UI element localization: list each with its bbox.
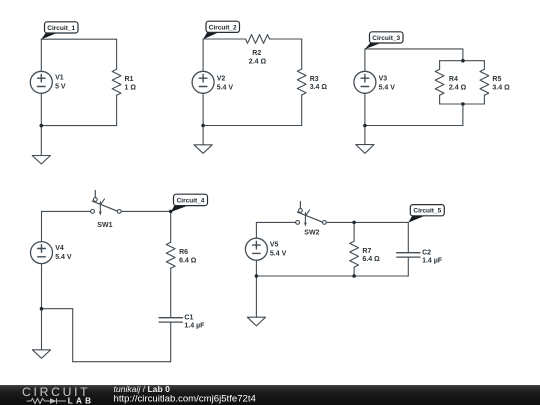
wire circuit5 bottom rail	[256, 275, 408, 277]
voltage source V4	[31, 242, 53, 264]
node circuit5 R7 bottom junction	[352, 274, 356, 278]
wire circuit2 left rail top	[202, 39, 204, 71]
wire R5 top lead	[483, 61, 485, 70]
ground circuit3	[356, 126, 374, 154]
wire circuit4 right rail bottom	[170, 322, 172, 362]
label C1 value	[184, 315, 205, 330]
wire C2 bottom lead	[407, 257, 409, 276]
svg-text:V4: V4	[55, 245, 64, 252]
wire circuit5 left rail top	[255, 222, 257, 238]
label R6 value	[179, 249, 197, 264]
svg-text:tunikaij / Lab 0: tunikaij / Lab 0	[114, 384, 171, 394]
svg-text:3.4 Ω: 3.4 Ω	[492, 84, 510, 91]
wire circuit4 top rail left	[42, 210, 91, 212]
voltage source V3	[354, 71, 376, 93]
switch SW2	[296, 202, 327, 227]
resistor R5	[480, 69, 489, 95]
label V4 value	[55, 245, 72, 261]
wire circuit1 bottom rail	[41, 125, 116, 127]
svg-text:R1: R1	[125, 76, 134, 83]
node circuit3 parallel top junction	[461, 59, 465, 63]
svg-text:5 V: 5 V	[55, 84, 66, 91]
wire R7 bottom lead	[353, 267, 355, 276]
svg-text:1.4 µF: 1.4 µF	[422, 258, 443, 265]
svg-text:R2: R2	[252, 50, 261, 57]
ground circuit4	[32, 309, 50, 359]
svg-text:6.4 Ω: 6.4 Ω	[179, 257, 197, 264]
resistor R7	[350, 241, 359, 267]
resistor R3	[297, 69, 306, 95]
svg-text:2.4 Ω: 2.4 Ω	[449, 84, 467, 91]
label tag Circuit_3	[365, 32, 403, 49]
svg-text:Circuit_3: Circuit_3	[372, 35, 400, 42]
label R7 value	[362, 248, 380, 263]
wire circuit2 bottom rail	[203, 125, 302, 127]
voltage source V2	[192, 71, 214, 93]
capacitor C2	[397, 253, 420, 257]
wire circuit3 bottom stem	[462, 104, 464, 126]
wire circuit4 right rail top	[170, 211, 172, 242]
label V5 value	[270, 242, 287, 258]
svg-text:SW2: SW2	[304, 230, 319, 237]
svg-text:R7: R7	[362, 248, 371, 255]
wire circuit1 right rail bottom	[116, 95, 118, 125]
wire circuit3 top rail	[365, 49, 463, 61]
node circuit2 bottom junction	[201, 124, 205, 128]
wire circuit1 top rail	[41, 38, 116, 40]
label tag Circuit_5	[408, 205, 444, 223]
svg-text:Circuit_5: Circuit_5	[413, 208, 441, 215]
wire circuit2 left rail bottom	[202, 93, 204, 125]
footer bar	[0, 385, 540, 405]
wire circuit1 left rail top	[40, 39, 42, 71]
node circuit5 left bottom junction	[255, 274, 259, 278]
svg-text:6.4 Ω: 6.4 Ω	[362, 256, 380, 263]
svg-text:V2: V2	[217, 76, 226, 83]
wire circuit1 right rail top	[116, 39, 118, 69]
wire circuit1 left rail bottom	[40, 93, 42, 125]
voltage source V5	[245, 238, 267, 260]
wire circuit3 parallel top bar	[440, 60, 485, 62]
svg-text:5.4 V: 5.4 V	[270, 251, 287, 258]
svg-text:SW1: SW1	[97, 222, 112, 229]
node circuit4 top right junction	[169, 210, 173, 214]
svg-text:C2: C2	[422, 250, 431, 257]
svg-text:R5: R5	[492, 76, 501, 83]
ground circuit5	[247, 276, 265, 326]
node circuit3 parallel bottom junction	[461, 102, 465, 106]
wire circuit4 left riser	[72, 309, 74, 362]
svg-text:5.4 V: 5.4 V	[379, 85, 396, 92]
svg-text:V5: V5	[270, 242, 279, 249]
label V1 value	[55, 75, 66, 91]
svg-text:V1: V1	[55, 75, 64, 82]
svg-text:C1: C1	[184, 315, 193, 322]
wire R7 top lead	[353, 222, 355, 241]
wire circuit2 top rail left	[203, 38, 245, 40]
svg-text:Circuit_2: Circuit_2	[209, 24, 237, 31]
label R4 value	[449, 76, 467, 91]
resistor R1	[112, 69, 121, 95]
wire circuit4 left rail top	[41, 211, 43, 241]
wire circuit3 left rail bottom	[364, 93, 366, 125]
label R2 value	[249, 50, 267, 65]
svg-text:5.4 V: 5.4 V	[55, 254, 72, 261]
svg-text:2.4 Ω: 2.4 Ω	[249, 58, 267, 65]
svg-text:http://circuitlab.com/cmj6j5tf: http://circuitlab.com/cmj6j5tfe72t4	[114, 394, 257, 405]
svg-text:LAB: LAB	[68, 396, 94, 405]
svg-text:Circuit_4: Circuit_4	[177, 197, 205, 204]
svg-text:R4: R4	[449, 76, 458, 83]
svg-text:V3: V3	[379, 76, 388, 83]
label R5 value	[492, 76, 510, 91]
wire circuit5 top rail right	[326, 221, 408, 223]
wire circuit5 left rail bottom	[255, 260, 257, 276]
svg-text:3.4 Ω: 3.4 Ω	[310, 84, 328, 91]
label tag Circuit_2	[203, 21, 239, 39]
svg-text:R6: R6	[179, 249, 188, 256]
wire circuit4 bottom rail	[73, 361, 171, 363]
capacitor C1	[159, 318, 182, 322]
label R1 value	[125, 76, 137, 91]
svg-text:1.4 µF: 1.4 µF	[184, 323, 205, 330]
wire R4 bottom lead	[439, 95, 441, 104]
wire circuit2 right rail top	[301, 39, 303, 69]
resistor R4	[435, 69, 444, 95]
resistor R2	[246, 35, 270, 44]
node circuit4 left junction	[40, 307, 44, 311]
svg-text:1 Ω: 1 Ω	[125, 84, 137, 91]
label C2 value	[422, 250, 443, 265]
wire circuit4 top rail right	[121, 210, 171, 212]
label tag Circuit_4	[171, 194, 208, 212]
voltage source V1	[30, 71, 52, 93]
wire circuit3 bottom rail	[365, 125, 463, 127]
resistor R6	[166, 242, 175, 268]
wire circuit4 bottom link	[42, 308, 73, 310]
wire circuit4 left rail bottom	[41, 264, 43, 309]
svg-text:R3: R3	[310, 76, 319, 83]
ground circuit1	[32, 126, 50, 164]
label R3 value	[310, 76, 328, 91]
switch SW1	[91, 191, 122, 216]
label V3 value	[379, 76, 396, 92]
wire circuit4 right rail middle	[170, 268, 172, 317]
wire circuit3 parallel bottom bar	[440, 103, 485, 105]
wire circuit3 left rail top	[364, 49, 366, 71]
node circuit1 bottom junction	[40, 124, 44, 128]
ground circuit2	[194, 126, 212, 154]
wire C2 top lead	[407, 222, 409, 252]
label tag Circuit_1	[41, 22, 78, 40]
wire R4 top lead	[439, 61, 441, 70]
node circuit5 R7 top junction	[352, 221, 356, 225]
wire R5 bottom lead	[483, 95, 485, 104]
wire circuit2 top rail right	[270, 38, 302, 40]
svg-text:5.4 V: 5.4 V	[217, 85, 234, 92]
svg-text:Circuit_1: Circuit_1	[47, 25, 75, 32]
wire circuit2 right rail bottom	[301, 95, 303, 126]
node circuit3 bottom junction	[363, 124, 367, 128]
label V2 value	[217, 76, 234, 92]
wire circuit5 top rail left	[256, 221, 295, 223]
logo resistor-diode underline	[27, 398, 67, 404]
